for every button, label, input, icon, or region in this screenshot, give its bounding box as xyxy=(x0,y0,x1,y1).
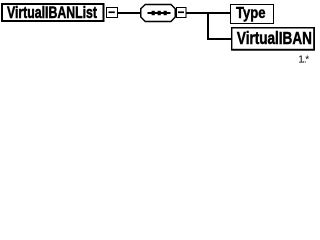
element box VirtualIBAN xyxy=(231,27,315,51)
wire from sequence to Type element xyxy=(186,12,231,14)
wire from expand button to sequence compositor xyxy=(118,12,141,14)
wire junction vertical drop xyxy=(207,12,209,40)
svg-text:1..*: 1..* xyxy=(298,54,309,65)
sequence compositor (octagon with dots) xyxy=(141,5,176,22)
expand button of VirtualIBANList xyxy=(107,8,118,18)
element box Type xyxy=(231,5,274,24)
svg-text:VirtualIBAN: VirtualIBAN xyxy=(237,29,312,48)
svg-text:Type: Type xyxy=(236,5,266,22)
wire branch to VirtualIBAN element xyxy=(207,38,231,40)
element box VirtualIBANList xyxy=(2,4,104,23)
svg-text:VirtualIBANList: VirtualIBANList xyxy=(7,4,97,23)
expand button of sequence xyxy=(177,8,187,18)
